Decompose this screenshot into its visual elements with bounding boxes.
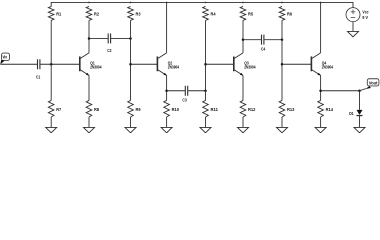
resistor R9 xyxy=(128,100,141,117)
wire Vcc top rail xyxy=(51,2,353,7)
svg-text:2N3904: 2N3904 xyxy=(90,65,102,70)
ground (R7) xyxy=(46,127,57,132)
node C4 / R6 junction xyxy=(281,38,284,41)
svg-text:R9: R9 xyxy=(136,107,141,112)
wire Vcc source to ground xyxy=(352,22,354,32)
ground (R12) xyxy=(238,127,249,132)
node Q2 emitter / C3 tap xyxy=(165,90,168,93)
diode D1 xyxy=(349,110,362,116)
wire R11 to ground xyxy=(205,117,207,127)
node Q2 base tap xyxy=(129,63,132,66)
wire R10 to ground xyxy=(166,117,168,127)
capacitor C2 xyxy=(107,33,112,53)
svg-text:C3: C3 xyxy=(182,98,187,103)
wire R9 to ground xyxy=(130,117,132,127)
wire R7 to ground xyxy=(50,117,52,127)
node Q4 base tap xyxy=(281,63,284,66)
wire C2 left lead from Q1 collector xyxy=(89,37,108,39)
node Vout connector xyxy=(365,79,379,89)
resistor R3 xyxy=(128,6,141,20)
node Q3 collector / C4 tap xyxy=(242,38,245,41)
svg-text:R2: R2 xyxy=(94,12,99,17)
wire C4 left lead from Q3 collector xyxy=(243,39,261,41)
node C3 / stage3 bias junction xyxy=(204,90,207,93)
svg-text:9 V: 9 V xyxy=(362,15,368,20)
node Q4 emitter / Vout tap xyxy=(319,90,322,93)
wire Q4 collector to rail xyxy=(320,2,322,52)
node input bias junction xyxy=(50,63,53,66)
svg-text:R8: R8 xyxy=(94,107,99,112)
wire Q4 emitter to R14 xyxy=(320,75,322,100)
resistor R7 xyxy=(48,100,61,117)
ground (R10) xyxy=(161,127,172,132)
wire R13 to ground xyxy=(281,117,283,127)
ground (Vcc source) xyxy=(348,31,359,36)
ground (R14) xyxy=(315,127,326,132)
resistor R8 xyxy=(86,100,99,117)
wire R5 to Q3 collector xyxy=(242,20,244,52)
wire Q3 emitter to R12 xyxy=(242,75,244,100)
svg-text:R10: R10 xyxy=(172,107,180,112)
transistor Q4 2N3904 xyxy=(311,53,333,76)
capacitor C1 xyxy=(36,59,41,79)
wire Vout net xyxy=(321,90,360,92)
wire D1 cathode to ground xyxy=(359,116,361,128)
svg-text:Vout: Vout xyxy=(369,80,378,85)
wire C4 right lead to stage4 bias node xyxy=(264,39,282,41)
wire stage4 bias column R6 to R13 xyxy=(281,20,283,100)
wire Q2 emitter to R10 xyxy=(166,75,168,100)
svg-text:2N3904: 2N3904 xyxy=(322,65,334,70)
ground (R9) xyxy=(125,127,136,132)
ground (R8) xyxy=(84,127,95,132)
svg-text:Vin: Vin xyxy=(3,55,8,60)
wire Q3 base xyxy=(206,63,234,65)
svg-text:R12: R12 xyxy=(248,107,256,112)
svg-text:2N3904: 2N3904 xyxy=(168,65,180,70)
svg-text:R11: R11 xyxy=(211,107,219,112)
resistor R13 xyxy=(279,100,295,117)
wire R1 to input node to R7 xyxy=(50,20,52,100)
ground (D1) xyxy=(354,127,365,132)
wire C3 left lead from Q2 emitter xyxy=(167,90,185,92)
svg-text:R4: R4 xyxy=(211,12,216,17)
svg-text:R14: R14 xyxy=(326,107,334,112)
transistor Q2 2N3904 xyxy=(157,53,179,76)
wire stage2 bias column R3 to R9 xyxy=(130,20,132,100)
resistor R2 xyxy=(86,6,99,20)
wire R2 to Q1 collector xyxy=(88,20,90,52)
wire R8 to ground xyxy=(88,117,90,127)
voltage source V1 Vcc 9V xyxy=(346,8,369,22)
capacitor C3 xyxy=(182,86,187,103)
ground (R11) xyxy=(200,127,211,132)
svg-text:R3: R3 xyxy=(136,12,141,17)
wire D1 anode lead xyxy=(359,91,361,110)
resistor R14 xyxy=(318,100,334,117)
node Vin connector xyxy=(0,53,9,64)
wire R12 to ground xyxy=(242,117,244,127)
resistor R6 xyxy=(279,6,292,20)
wire Vout tag lead xyxy=(360,89,366,91)
wire Q2 base xyxy=(131,63,158,65)
resistor R12 xyxy=(240,100,256,117)
wire stage3 bias column R4 to R11 xyxy=(205,20,207,100)
svg-text:R1: R1 xyxy=(56,12,61,17)
node Q1 collector / C2 tap xyxy=(88,37,91,40)
ground (R13) xyxy=(277,127,288,132)
wire R14 to ground xyxy=(320,117,322,127)
node Vout / D1 junction xyxy=(358,90,361,93)
transistor Q1 2N3904 xyxy=(80,53,102,76)
svg-text:C1: C1 xyxy=(36,75,41,80)
wire C3 right lead to stage3 bias node xyxy=(188,90,205,92)
node Q3 base tap xyxy=(204,63,207,66)
svg-text:C4: C4 xyxy=(261,47,266,52)
node rail junctions xyxy=(88,2,90,4)
wire Q2 collector to rail xyxy=(166,2,168,52)
resistor R4 xyxy=(203,6,216,20)
transistor Q3 2N3904 xyxy=(234,53,256,76)
resistor R11 xyxy=(203,100,219,117)
capacitor C4 xyxy=(261,35,266,52)
resistor R10 xyxy=(164,100,180,117)
svg-text:2N3904: 2N3904 xyxy=(244,65,256,70)
resistor R5 xyxy=(240,6,253,20)
svg-text:R13: R13 xyxy=(287,107,295,112)
wire Q4 base xyxy=(282,63,311,65)
node C2 / R3 junction xyxy=(129,37,132,40)
wire input net Vin to C1 xyxy=(0,63,37,65)
svg-text:C2: C2 xyxy=(107,48,112,53)
svg-text:D1: D1 xyxy=(349,111,354,116)
svg-text:R6: R6 xyxy=(287,12,292,17)
svg-text:R7: R7 xyxy=(56,107,61,112)
wire Q1 emitter to R8 xyxy=(88,75,90,100)
wire C1 to Q1 base xyxy=(40,63,80,65)
resistor R1 xyxy=(48,6,61,20)
wire C2 right lead to stage2 bias node xyxy=(111,37,131,39)
svg-text:R5: R5 xyxy=(248,12,253,17)
